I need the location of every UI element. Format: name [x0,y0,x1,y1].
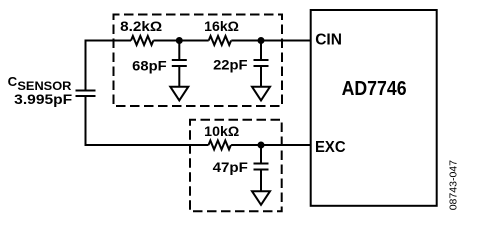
svg-text:22pF: 22pF [213,57,248,73]
wire 47pF to ground [260,170,262,192]
node junction dot C (EXC/47pF) [258,142,265,149]
capacitor C2 22pF [254,60,269,66]
resistor R2 16k [209,36,231,45]
wire CIN top [86,40,311,42]
node junction dot A (CIN/68pF) [176,37,183,44]
node junction dot B (CIN/22pF) [258,37,265,44]
svg-text:3.995pF: 3.995pF [14,91,72,107]
svg-text:CIN: CIN [315,32,342,49]
wire branch 22pF [260,41,262,61]
resistor R3 10k [209,141,231,150]
svg-text:EXC: EXC [315,139,346,156]
resistor R1 8.2k [131,36,153,45]
svg-text:08743-047: 08743-047 [448,160,459,211]
IC U1 AD7746 box [311,10,437,206]
capacitor C1 68pF [172,60,187,66]
RC filter dashed box (bottom) [190,120,282,212]
ground (47pF) [252,191,270,205]
capacitor CSENSOR 3.995pF [76,91,96,97]
wire EXC bottom [86,144,311,146]
svg-text:C: C [8,74,18,89]
svg-text:47pF: 47pF [213,159,249,175]
wire left vertical (sensor branch) [85,40,87,147]
wire branch 47pF [260,145,262,164]
wire 22pF to ground [260,66,262,87]
ground (68pF) [170,87,188,101]
RC filter dashed box (top) [114,15,283,107]
ground (22pF) [252,87,270,101]
svg-text:16kΩ: 16kΩ [204,18,239,34]
wire branch 68pF [178,41,180,61]
wire 68pF to ground [178,66,180,87]
svg-text:10kΩ: 10kΩ [204,123,239,139]
capacitor C3 47pF [254,164,269,170]
svg-text:AD7746: AD7746 [342,77,407,100]
svg-text:8.2kΩ: 8.2kΩ [120,18,162,34]
svg-text:68pF: 68pF [132,57,167,73]
